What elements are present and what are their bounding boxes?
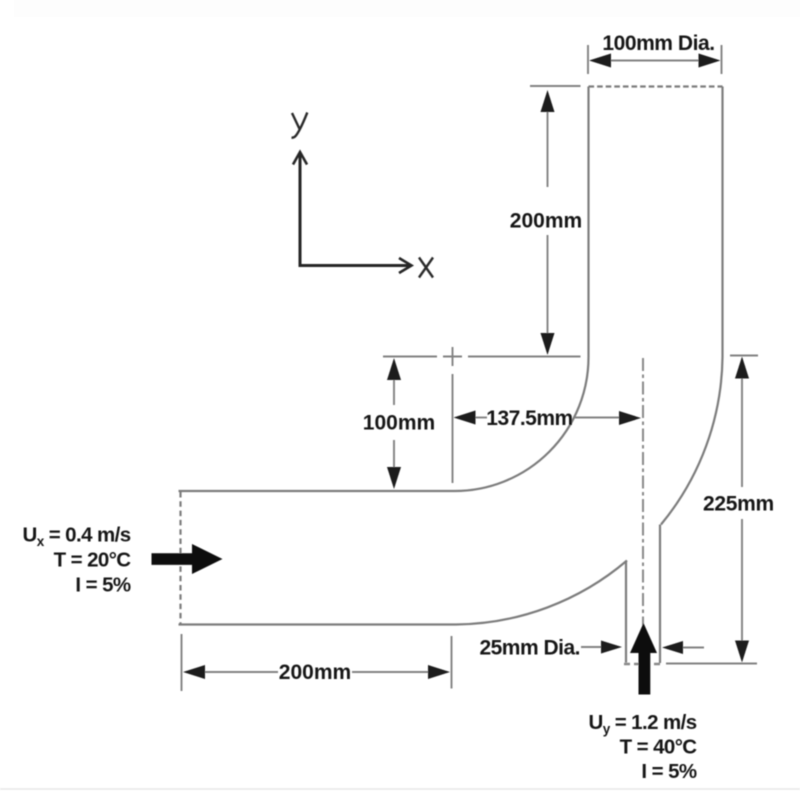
y axis (299, 153, 302, 267)
extension line left (181, 634, 183, 691)
dimension line right stub (575, 417, 621, 419)
dimension line upper part (547, 100, 549, 187)
y axis open arrowhead (293, 152, 307, 165)
left leader line (581, 646, 604, 648)
dimension line right part (352, 671, 430, 673)
extension line bottom (666, 663, 757, 665)
arrowhead right (699, 54, 721, 68)
arrowhead up (541, 90, 555, 112)
small pipe dashed inlet boundary (624, 663, 662, 665)
arrowhead right (428, 665, 450, 679)
extension line bottom (468, 356, 581, 358)
extension tick right (721, 45, 723, 74)
arrowhead left (454, 411, 476, 425)
dimension line upper part (393, 366, 395, 405)
outer bend arc upper segment (661, 357, 723, 525)
arrowhead right (619, 411, 641, 425)
extension line top (730, 355, 758, 357)
faint page rule bottom (0, 788, 800, 790)
dimension line left stub (474, 417, 487, 419)
arrowhead left (589, 54, 611, 68)
svg-text:100mm Dia.: 100mm Dia. (602, 32, 714, 55)
inlet bottom wall (179, 623, 457, 625)
svg-text:137.5mm: 137.5mm (486, 407, 572, 430)
svg-text:I = 5%: I = 5% (641, 760, 696, 783)
dimension line left part (203, 671, 278, 673)
extension line top (383, 356, 437, 358)
left leader arrowhead (601, 641, 622, 654)
dimension line (600, 60, 710, 62)
inner bend arc (455, 357, 589, 491)
svg-text:200mm: 200mm (279, 661, 351, 684)
extension tick left (587, 45, 589, 74)
inlet dashed boundary (179, 492, 181, 624)
arrowhead up (387, 358, 401, 380)
svg-text:100mm: 100mm (363, 412, 435, 435)
inlet top wall (179, 490, 455, 492)
arrowhead left (183, 665, 205, 679)
dimension line lower part (393, 440, 395, 481)
x axis (300, 264, 409, 267)
x axis open arrowhead (399, 258, 412, 273)
svg-text:T = 20°C: T = 20°C (54, 549, 132, 572)
svg-text:200mm: 200mm (510, 210, 582, 233)
small pipe right wall (659, 525, 661, 664)
svg-text:T = 40°C: T = 40°C (620, 736, 698, 759)
arrowhead up (735, 357, 749, 379)
small pipe left wall (625, 561, 627, 663)
label y (drawn glyph) (292, 113, 308, 138)
arrowhead down (735, 641, 749, 663)
dimension line upper part (741, 366, 743, 487)
Ux inlet flow arrow (152, 544, 223, 574)
extension line below center mark (452, 374, 454, 483)
outlet dashed top boundary (589, 85, 723, 87)
svg-text:I = 5%: I = 5% (75, 574, 130, 597)
right leader arrowhead (662, 641, 683, 654)
arrowhead down (541, 333, 555, 355)
label x (drawn glyph) (419, 258, 433, 278)
outlet right wall (721, 87, 723, 358)
outlet left wall (587, 87, 589, 358)
svg-text:225mm: 225mm (703, 493, 774, 516)
extension line top (530, 85, 581, 87)
extension line right (451, 636, 453, 689)
dimension line lower part (741, 519, 743, 653)
small pipe dash-dot centerline (642, 358, 644, 663)
right leader line (683, 647, 704, 649)
svg-text:25mm Dia.: 25mm Dia. (479, 637, 580, 660)
outer bend arc lower segment (456, 561, 627, 625)
arrowhead down (387, 467, 401, 489)
dimension line lower part (547, 235, 549, 345)
Uy inlet flow arrow (630, 623, 657, 695)
